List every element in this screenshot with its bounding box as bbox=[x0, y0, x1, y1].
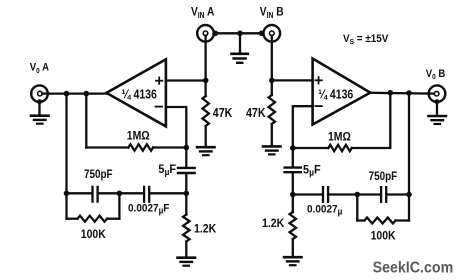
wire VIN B down to +input B bbox=[271, 36, 273, 95]
wire 5uF B down bbox=[292, 174, 294, 195]
wire 1.2K to ground bbox=[185, 242, 187, 257]
wire 1M row right bbox=[153, 146, 186, 148]
junction dot output B 1M tap bbox=[388, 90, 394, 96]
connector J3 V0 A output bbox=[31, 85, 48, 104]
capacitor C4 5uF channel B bbox=[285, 168, 301, 173]
capacitor C6 750pF channel B bbox=[381, 187, 386, 202]
junction dot output A 1M tap bbox=[84, 91, 90, 97]
junction dot inverting node B top bbox=[290, 145, 296, 151]
junction dot inverting node A top bbox=[184, 145, 190, 151]
wire node B to 5uF bbox=[292, 148, 294, 166]
resistor R2 47K channel B bbox=[269, 95, 275, 124]
connector J4 V0 B output bbox=[429, 85, 446, 104]
ground GND under J4 bbox=[429, 116, 447, 124]
wire 1M row left bbox=[86, 146, 128, 148]
ground GND under J3 bbox=[31, 116, 49, 124]
junction dot node A lower bbox=[184, 191, 190, 197]
wire node B to 0.0027u bbox=[293, 193, 322, 195]
wire 100K loop bottom left bbox=[67, 218, 78, 220]
wire J3 to ground bbox=[38, 102, 40, 115]
capacitor C1 5uF channel A bbox=[178, 168, 195, 173]
wire R1 to ground bbox=[205, 126, 207, 146]
wire feedback row to 750pF bbox=[67, 192, 92, 194]
svg-text:47K: 47K bbox=[246, 106, 266, 120]
wire 100K loop B bottom right bbox=[396, 219, 410, 221]
wire node A to 5uF bbox=[185, 148, 187, 167]
minus marker U2 bbox=[315, 105, 321, 107]
wire ground stem from input bus bbox=[239, 33, 241, 52]
svg-text:1.2K: 1.2K bbox=[194, 223, 217, 236]
capacitor C2 750pF channel A bbox=[93, 187, 98, 202]
svg-text:100K: 100K bbox=[371, 230, 397, 243]
wire node B to 1.2K bbox=[292, 195, 294, 213]
wire 1.2K B to ground bbox=[292, 239, 294, 256]
resistor R4 100K channel A bbox=[78, 216, 108, 222]
wire mid junction to 0.0027uF bbox=[119, 192, 143, 194]
svg-text:750pF: 750pF bbox=[84, 168, 113, 181]
svg-text:750pF: 750pF bbox=[369, 171, 398, 184]
wire feedback right vertical bbox=[408, 93, 410, 195]
junction dot feedback row far left bbox=[64, 191, 70, 197]
svg-text:VIN A: VIN A bbox=[191, 6, 214, 20]
svg-text:0.0027µF: 0.0027µF bbox=[128, 202, 170, 216]
junction dot at VIN B connector bbox=[259, 31, 265, 37]
connector J2 VIN B bbox=[264, 25, 281, 42]
wire +input A bbox=[166, 79, 206, 81]
ground GND under R2 bbox=[263, 146, 281, 154]
wire -input B bbox=[293, 106, 313, 148]
resistor R8 1.2K channel B bbox=[290, 212, 296, 239]
wire 100K loop bottom right bbox=[107, 218, 119, 220]
wire 5uF down bbox=[185, 174, 187, 193]
wire 100K loop B up bbox=[408, 195, 410, 221]
wire 750pF B to right junction bbox=[387, 193, 409, 195]
svg-text:V0 B: V0 B bbox=[426, 68, 446, 81]
svg-text:47K: 47K bbox=[213, 106, 233, 120]
wire 100K loop right up bbox=[118, 193, 120, 218]
wire output B bbox=[369, 92, 434, 95]
minus marker U1 bbox=[156, 106, 162, 108]
wire 1M row B right bbox=[352, 93, 391, 148]
ground GND under 1.2K A bbox=[178, 258, 196, 266]
connector J1 VIN A bbox=[197, 25, 214, 42]
wire VIN A to VIN B bus bbox=[214, 32, 264, 34]
capacitor C5 0.0027u channel B bbox=[323, 187, 328, 202]
op-amp U1 1/4 4136 channel A bbox=[106, 59, 165, 126]
junction dot feedback row far right bbox=[406, 192, 412, 198]
resistor R5 1.2K channel A bbox=[183, 215, 189, 242]
svg-text:¼ 4136: ¼ 4136 bbox=[318, 86, 353, 101]
wire 100K loop B bottom left bbox=[357, 219, 364, 221]
junction dot node B lower bbox=[290, 192, 296, 198]
svg-text:1.2K: 1.2K bbox=[262, 218, 285, 231]
resistor R1 47K channel A bbox=[203, 96, 209, 126]
junction dot output B feedback tap bbox=[406, 90, 412, 96]
svg-text:5µF: 5µF bbox=[158, 164, 176, 177]
wire output A bbox=[42, 92, 107, 94]
wire 1M row B left bbox=[293, 147, 329, 149]
op-amp U2 1/4 4136 channel B bbox=[313, 59, 371, 125]
svg-text:VIN B: VIN B bbox=[260, 6, 284, 20]
plus marker U1 bbox=[156, 78, 162, 84]
junction dot +input B node bbox=[269, 78, 275, 84]
capacitor C3 0.0027uF channel A bbox=[144, 187, 149, 202]
wire J4 to ground bbox=[436, 102, 438, 115]
wire 750pF to mid junction bbox=[99, 192, 120, 194]
wire 100K loop left down bbox=[65, 193, 67, 218]
resistor R7 100K channel B bbox=[365, 218, 396, 224]
svg-text:¼ 4136: ¼ 4136 bbox=[122, 86, 157, 101]
wire 0.0027u to mid junction B bbox=[329, 193, 357, 195]
svg-text:0.0027µ: 0.0027µ bbox=[307, 203, 342, 217]
wire +input B bbox=[272, 79, 313, 81]
wire 0.0027uF to node A bbox=[150, 192, 186, 194]
junction dot mid input bus bbox=[237, 31, 243, 37]
wire node A to 1.2K bbox=[185, 193, 187, 214]
wire -input A bbox=[166, 107, 186, 148]
wire feedback left vertical bbox=[65, 94, 67, 194]
wire R2 to ground bbox=[271, 124, 273, 145]
ground GND input bus bbox=[232, 54, 248, 63]
wire 1M left vertical bbox=[85, 94, 87, 148]
svg-text:1MΩ: 1MΩ bbox=[127, 130, 150, 143]
wire mid junction B to 750pF bbox=[357, 193, 380, 195]
resistor R6 1M ohm channel B bbox=[328, 145, 352, 151]
wire 100K loop B down bbox=[356, 195, 358, 221]
svg-text:5µF: 5µF bbox=[303, 164, 321, 177]
ground GND under R1 bbox=[197, 147, 215, 155]
ground GND under 1.2K B bbox=[284, 257, 302, 265]
svg-text:SeekIC.com: SeekIC.com bbox=[373, 259, 454, 277]
wire VIN A down to +input A bbox=[204, 36, 206, 96]
junction dot at VIN A connector bbox=[213, 31, 219, 37]
plus marker U2 bbox=[315, 77, 321, 83]
junction dot 750pF/100K right bbox=[117, 191, 123, 197]
svg-text:100K: 100K bbox=[81, 228, 107, 241]
junction dot 750pF/100K left B bbox=[355, 192, 361, 198]
junction dot +input A node bbox=[203, 78, 209, 84]
svg-text:1MΩ: 1MΩ bbox=[328, 131, 351, 144]
junction dot output A feedback tap bbox=[64, 91, 70, 97]
svg-text:VS = ±15V: VS = ±15V bbox=[343, 33, 388, 46]
svg-text:V0 A: V0 A bbox=[30, 62, 50, 75]
resistor R3 1M ohm channel A bbox=[128, 144, 153, 150]
